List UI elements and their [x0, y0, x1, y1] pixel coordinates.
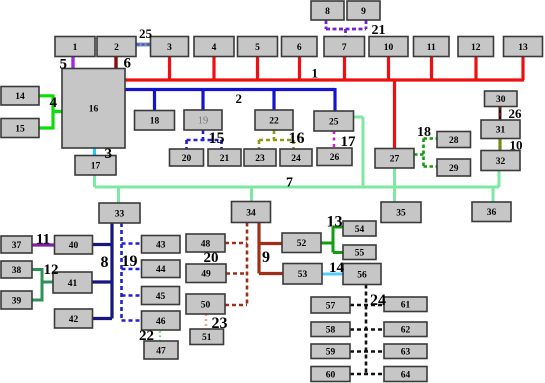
svg-text:2: 2 — [236, 91, 243, 106]
box 12 — [458, 37, 494, 57]
svg-text:58: 58 — [326, 326, 336, 336]
svg-text:10: 10 — [510, 138, 523, 153]
box 21 — [208, 149, 241, 166]
box 51 — [190, 329, 224, 345]
svg-text:15: 15 — [209, 130, 225, 147]
svg-text:20: 20 — [204, 250, 219, 266]
svg-text:23: 23 — [212, 315, 228, 332]
box 52 — [282, 233, 321, 253]
svg-text:11: 11 — [36, 232, 50, 248]
wire 23 salmon dotted — [205, 314, 208, 329]
wire 21 violet dashed — [326, 20, 366, 37]
svg-text:34: 34 — [246, 208, 256, 218]
box 40 — [55, 236, 93, 255]
svg-text:43: 43 — [156, 241, 166, 251]
box 39 — [1, 291, 32, 309]
svg-text:16: 16 — [289, 130, 305, 147]
wire 2 blue bus — [125, 88, 335, 111]
svg-text:12: 12 — [471, 43, 481, 53]
svg-text:10: 10 — [384, 43, 394, 53]
svg-text:64: 64 — [401, 370, 411, 380]
svg-text:41: 41 — [68, 279, 78, 289]
box 23 — [244, 149, 276, 166]
svg-text:15: 15 — [15, 124, 25, 134]
box 38 — [1, 261, 32, 278]
box 22 — [255, 110, 293, 130]
wire 13 green — [321, 227, 343, 253]
svg-text:31: 31 — [496, 126, 506, 136]
wire 20 brown dashed bus — [225, 223, 247, 306]
svg-text:50: 50 — [201, 300, 211, 310]
box 16 — [62, 69, 125, 149]
svg-text:47: 47 — [156, 346, 166, 356]
wire 17 magenta dashed — [333, 131, 336, 148]
box 41 — [53, 272, 92, 293]
svg-text:19: 19 — [198, 115, 209, 126]
svg-text:18: 18 — [150, 117, 160, 127]
box 29 — [437, 159, 471, 176]
svg-text:61: 61 — [401, 301, 411, 311]
svg-text:54: 54 — [355, 225, 365, 235]
wire 14 light blue — [322, 273, 343, 276]
box 9 — [347, 1, 380, 20]
svg-text:21: 21 — [372, 23, 386, 38]
svg-text:23: 23 — [255, 154, 265, 164]
box 56 — [343, 264, 381, 285]
box 61 — [384, 297, 427, 312]
box 43 — [142, 236, 181, 254]
box 49 — [186, 264, 226, 283]
svg-text:8: 8 — [325, 7, 330, 17]
box 34 — [232, 202, 271, 223]
box 17 — [75, 156, 116, 176]
wire 15 blue dashed — [187, 130, 222, 149]
box 15 — [1, 119, 39, 138]
wire 26 dark red/black dashed — [499, 107, 502, 120]
box 33 — [99, 203, 140, 223]
svg-text:36: 36 — [487, 208, 497, 218]
svg-text:51: 51 — [202, 333, 212, 343]
box 11 — [414, 37, 450, 57]
wire 19 blue dashed bus — [122, 223, 142, 321]
box 35 — [381, 202, 421, 223]
svg-text:33: 33 — [115, 209, 125, 219]
box 59 — [311, 344, 350, 359]
svg-text:1: 1 — [312, 66, 319, 81]
svg-text:14: 14 — [15, 92, 25, 102]
svg-text:4: 4 — [212, 43, 217, 53]
svg-text:13: 13 — [518, 43, 528, 53]
wire 9 brown — [259, 223, 283, 274]
svg-text:6: 6 — [297, 43, 302, 53]
svg-text:24: 24 — [370, 292, 386, 309]
svg-text:40: 40 — [69, 241, 79, 251]
svg-text:5: 5 — [60, 57, 68, 73]
svg-text:32: 32 — [496, 157, 506, 167]
box 47 — [144, 341, 178, 359]
box 63 — [384, 344, 427, 359]
svg-text:17: 17 — [341, 134, 357, 150]
box 27 — [375, 149, 414, 169]
svg-text:22: 22 — [139, 328, 154, 344]
wire 7 light green bus — [95, 117, 500, 203]
wire 4 green — [39, 94, 62, 129]
box 42 — [55, 309, 93, 328]
svg-text:39: 39 — [12, 296, 22, 306]
wire 6 dark red — [114, 57, 117, 69]
svg-text:57: 57 — [326, 301, 336, 311]
svg-text:17: 17 — [91, 162, 101, 172]
wire 24 black dashed bus — [350, 285, 384, 375]
svg-text:12: 12 — [44, 262, 59, 278]
svg-text:28: 28 — [449, 136, 459, 146]
box 57 — [311, 297, 350, 313]
svg-text:59: 59 — [326, 348, 336, 358]
svg-text:13: 13 — [327, 214, 343, 231]
svg-text:19: 19 — [122, 253, 138, 270]
box 5 — [238, 37, 278, 57]
box 20 — [170, 149, 204, 166]
svg-text:25: 25 — [329, 117, 339, 127]
svg-text:3: 3 — [167, 43, 172, 53]
svg-text:26: 26 — [330, 153, 340, 163]
wire 22 light green dotted — [159, 331, 161, 341]
box 54 — [343, 221, 376, 236]
wire 1 red power bus — [125, 57, 524, 149]
box 25 — [314, 111, 354, 131]
box 60 — [311, 367, 350, 382]
box 58 — [311, 322, 350, 337]
svg-text:56: 56 — [357, 270, 367, 280]
box 32 — [481, 151, 520, 171]
svg-text:9: 9 — [361, 7, 366, 17]
box 48 — [186, 234, 225, 252]
svg-text:20: 20 — [182, 154, 192, 164]
svg-text:2: 2 — [114, 43, 119, 53]
box 19 — [184, 110, 222, 130]
svg-text:62: 62 — [401, 326, 411, 336]
svg-text:14: 14 — [329, 260, 345, 276]
svg-text:11: 11 — [427, 43, 436, 53]
box 6 — [282, 37, 318, 57]
svg-text:63: 63 — [401, 348, 411, 358]
box 24 — [280, 149, 312, 166]
box 36 — [472, 202, 511, 222]
svg-text:5: 5 — [255, 43, 260, 53]
box 31 — [481, 120, 520, 139]
box 2 — [97, 37, 136, 57]
svg-text:16: 16 — [89, 105, 99, 115]
svg-text:42: 42 — [69, 315, 79, 325]
box 18 — [135, 111, 175, 131]
svg-text:29: 29 — [449, 164, 459, 174]
svg-text:38: 38 — [12, 266, 22, 276]
svg-text:18: 18 — [417, 125, 431, 140]
svg-text:52: 52 — [297, 239, 307, 249]
svg-text:46: 46 — [156, 317, 166, 327]
box 8 — [311, 1, 344, 20]
svg-text:30: 30 — [496, 95, 506, 105]
box 53 — [283, 264, 322, 285]
wire 16 olive dashed — [259, 130, 294, 149]
box 64 — [384, 367, 427, 382]
svg-text:48: 48 — [201, 239, 211, 249]
svg-text:53: 53 — [298, 270, 308, 280]
svg-text:49: 49 — [201, 270, 211, 280]
box 46 — [142, 311, 181, 330]
box 50 — [186, 294, 225, 314]
box 37 — [1, 236, 32, 253]
svg-text:55: 55 — [355, 249, 365, 259]
wire 18 green dashed — [414, 139, 437, 167]
svg-text:35: 35 — [396, 209, 406, 219]
wire 12 sea green — [32, 268, 53, 302]
svg-text:45: 45 — [156, 292, 166, 302]
svg-text:22: 22 — [269, 116, 279, 126]
svg-text:21: 21 — [220, 154, 230, 164]
wire 8 navy — [92, 223, 112, 319]
svg-text:37: 37 — [12, 241, 22, 251]
box 3 — [151, 37, 189, 57]
wire 10 olive — [498, 139, 501, 151]
wire 3 cyan — [93, 148, 96, 156]
svg-text:4: 4 — [50, 95, 58, 111]
box 13 — [504, 37, 543, 57]
svg-text:1: 1 — [73, 43, 78, 53]
svg-text:6: 6 — [124, 56, 132, 72]
box 45 — [142, 287, 180, 305]
box 10 — [369, 37, 408, 57]
box 28 — [437, 132, 471, 148]
svg-text:27: 27 — [390, 155, 400, 165]
svg-text:24: 24 — [291, 154, 301, 164]
box 62 — [384, 322, 427, 337]
box 4 — [194, 37, 234, 57]
svg-text:7: 7 — [286, 176, 293, 191]
box 55 — [343, 245, 376, 260]
box 14 — [1, 87, 39, 106]
svg-text:8: 8 — [101, 254, 109, 271]
box 7 — [324, 37, 365, 57]
box 44 — [142, 260, 181, 278]
wire 11 violet — [32, 243, 55, 246]
svg-text:7: 7 — [342, 43, 347, 53]
wire 5 purple — [71, 57, 74, 69]
svg-text:3: 3 — [105, 146, 113, 162]
svg-text:44: 44 — [156, 265, 166, 275]
box 30 — [485, 91, 518, 107]
svg-text:26: 26 — [509, 106, 523, 121]
box 1 — [55, 37, 95, 57]
svg-text:9: 9 — [262, 249, 270, 266]
svg-text:60: 60 — [326, 370, 336, 380]
box 26 — [317, 148, 352, 166]
svg-text:25: 25 — [139, 26, 153, 41]
wire 25 striped connector — [137, 43, 151, 47]
